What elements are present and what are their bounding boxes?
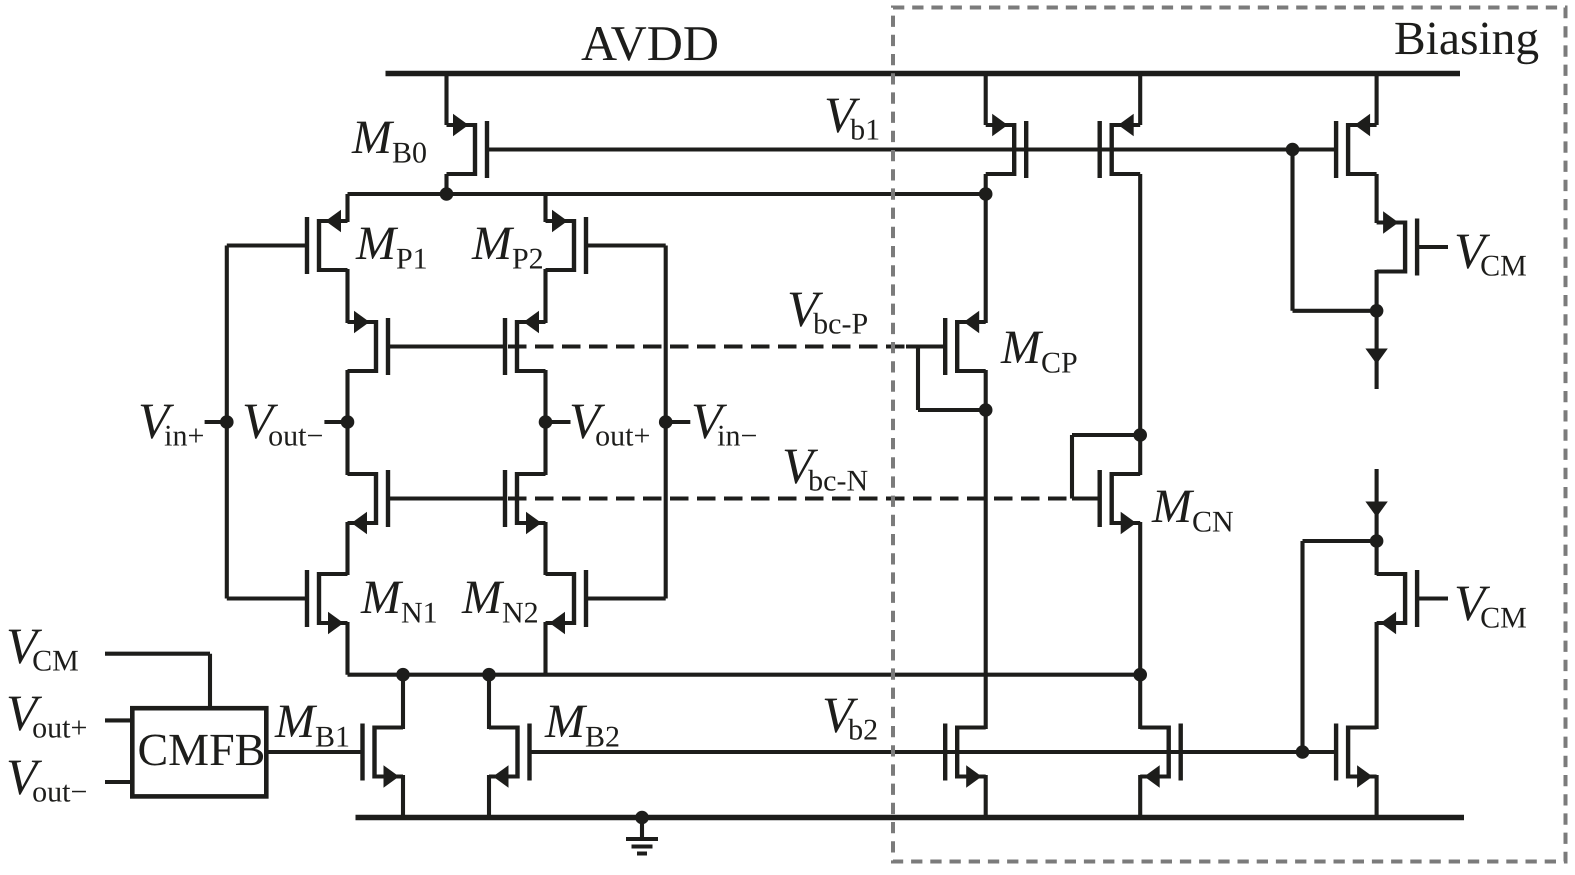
svg-text:MN2: MN2 bbox=[461, 571, 539, 630]
svg-text:MB2: MB2 bbox=[544, 695, 620, 754]
svg-text:MN1: MN1 bbox=[360, 571, 438, 630]
svg-text:VCM: VCM bbox=[6, 619, 79, 678]
svg-text:MP1: MP1 bbox=[355, 217, 428, 276]
svg-text:MB0: MB0 bbox=[351, 111, 427, 170]
svg-text:CMFB: CMFB bbox=[138, 724, 266, 775]
svg-text:Vout−: Vout− bbox=[242, 394, 323, 453]
svg-text:MB1: MB1 bbox=[274, 695, 350, 754]
svg-text:VCM: VCM bbox=[1454, 224, 1527, 283]
svg-text:Vout−: Vout− bbox=[6, 750, 87, 809]
svg-text:Vb2: Vb2 bbox=[822, 688, 878, 747]
svg-text:Vbc-N: Vbc-N bbox=[782, 439, 868, 498]
svg-text:Biasing: Biasing bbox=[1394, 13, 1539, 65]
svg-text:Vout+: Vout+ bbox=[569, 394, 650, 453]
svg-text:VCM: VCM bbox=[1454, 576, 1527, 635]
svg-text:MCP: MCP bbox=[1000, 321, 1078, 380]
svg-text:Vb1: Vb1 bbox=[824, 88, 880, 147]
svg-text:Vin+: Vin+ bbox=[138, 394, 204, 453]
svg-text:MCN: MCN bbox=[1151, 480, 1234, 539]
svg-text:AVDD: AVDD bbox=[581, 15, 719, 71]
svg-text:Vin−: Vin− bbox=[691, 394, 757, 453]
svg-text:Vbc-P: Vbc-P bbox=[787, 282, 868, 341]
svg-text:Vout+: Vout+ bbox=[6, 686, 87, 745]
svg-text:MP2: MP2 bbox=[471, 217, 544, 276]
